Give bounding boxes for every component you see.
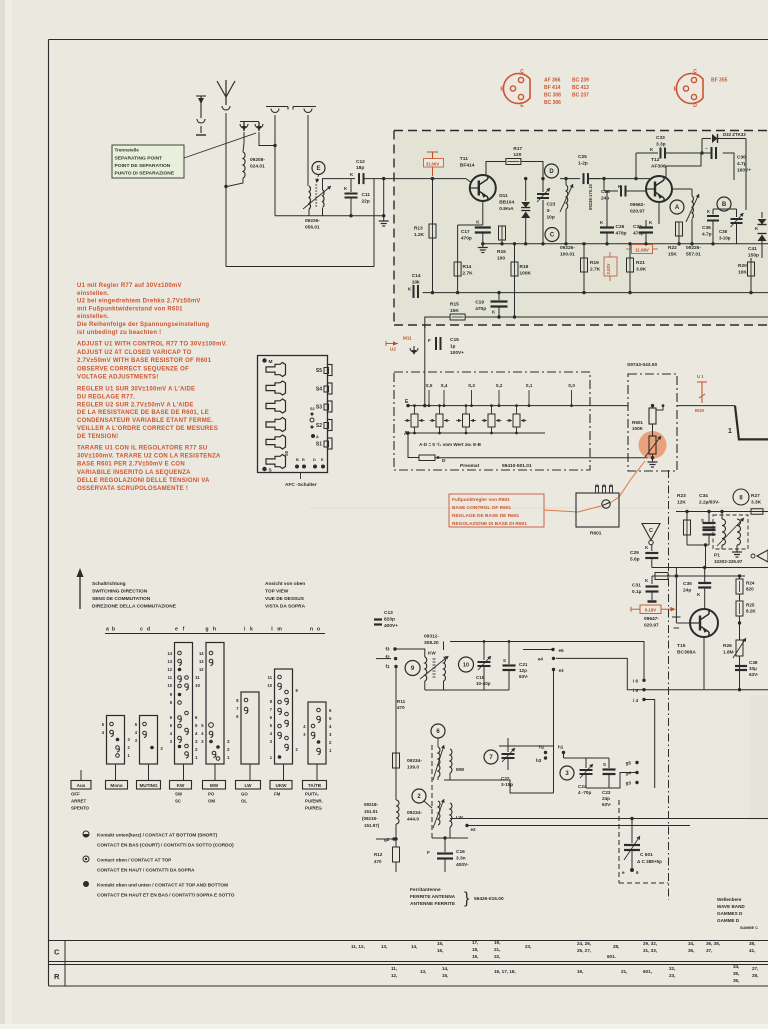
svg-text:R20: R20 [738,263,747,269]
svg-text:c: c [140,627,143,633]
AFC M contact [262,358,266,362]
svg-text:U2 bei eingedrehtem Drehko 2.7: U2 bei eingedrehtem Drehko 2.7V±50mV [77,299,201,305]
svg-text:A: A [316,435,319,439]
svg-text:h1: h1 [558,745,564,750]
svg-text:i 4: i 4 [633,698,639,703]
svg-text:S5: S5 [316,368,322,374]
svg-text:13,: 13, [381,944,387,949]
svg-text:AF 366: AF 366 [544,78,561,84]
svg-text:09226-: 09226- [305,218,320,224]
transistor T15 BC308A [690,609,718,637]
wire e5 bus to i6 [450,642,644,681]
svg-text:37,: 37, [706,948,712,953]
wire KW secondary top to bus [444,642,451,658]
R601 tap wire [657,406,664,410]
svg-text:einstellen.: einstellen. [77,291,109,297]
C601 enclosure dashed [618,800,620,883]
svg-text:R22: R22 [668,245,677,251]
svg-text:GAMME D: GAMME D [717,918,740,923]
svg-text:S,3: S,3 [468,383,475,388]
svg-text:U2: U2 [390,347,396,352]
svg-text:C17: C17 [461,229,470,235]
svg-text:h: h [213,627,216,633]
svg-text:444.0: 444.0 [407,817,419,823]
svg-text:35,: 35, [733,971,739,976]
lower bus 292 [423,292,768,294]
svg-text:11: 11 [195,675,200,680]
circled 2 [412,789,426,803]
svg-text:VEILLER A L'ORDRE CORRECT DE M: VEILLER A L'ORDRE CORRECT DE MESURES [77,426,218,432]
svg-text:C22: C22 [501,776,510,781]
lower long bus 818 [450,818,768,820]
AFC-Schalter box [258,356,328,473]
svg-text:C36: C36 [702,225,711,231]
svg-text:T12: T12 [651,157,660,163]
svg-text:UKW: UKW [276,783,288,788]
stem for Aus [80,770,82,781]
svg-text:10k: 10k [412,280,420,286]
vertical dash-dot separator [668,470,670,900]
svg-text:400V-: 400V- [456,862,469,868]
shaded RF block background [394,131,768,326]
wire f1 down to antenna coil [395,667,397,801]
circled 9 [405,661,420,676]
svg-text:Die Reihenfolge der Spannungse: Die Reihenfolge der Spannungseinstellung [77,322,209,328]
svg-text:D: D [442,458,446,464]
svg-text:12K: 12K [677,500,686,506]
svg-text:2.7V±50mV WITH BASE RESISTOR O: 2.7V±50mV WITH BASE RESISTOR OF R601 [77,358,212,364]
trimmer capacitor C38 3-10p [736,209,738,217]
svg-text:B: B [722,202,727,208]
thick wire 1 [677,405,735,407]
svg-text:R11: R11 [397,699,406,704]
svg-text:2.02V: 2.02V [606,263,611,274]
svg-text:M10: M10 [695,408,704,413]
svg-text:400V+: 400V+ [384,623,398,629]
svg-text:820: 820 [746,587,754,592]
svg-text:MW: MW [456,767,465,772]
svg-text:C30: C30 [737,155,746,161]
svg-text:3-10p: 3-10p [719,236,731,241]
KW transformer [425,657,427,681]
svg-text:14: 14 [167,651,172,656]
svg-text:24p: 24p [602,796,610,801]
svg-text:VOLTAGE ADJUSTMENTS!: VOLTAGE ADJUSTMENTS! [77,375,159,381]
svg-text:C13: C13 [384,610,393,616]
svg-text:C19: C19 [475,300,484,306]
svg-text:10K: 10K [738,270,747,276]
svg-text:ADJUST U1 WITH CONTROL R77 TO: ADJUST U1 WITH CONTROL R77 TO 30V±100mV. [77,342,227,348]
resistor R21 3.9K [629,244,631,258]
svg-text:e2: e2 [471,827,477,832]
svg-text:ist unbedingt zu beachten !: ist unbedingt zu beachten ! [77,330,161,336]
svg-text:SW: SW [175,792,183,797]
svg-text:34,: 34, [733,964,739,969]
svg-text:R25: R25 [746,603,755,608]
circled letter B [717,197,731,211]
svg-text:m: m [277,627,282,633]
svg-text:REGLER U1 SUR 30V±100mV A L'AI: REGLER U1 SUR 30V±100mV A L'AIDE [77,387,195,393]
svg-text:e3: e3 [559,668,565,673]
capacitor C23b 24p 63V [608,758,610,768]
svg-text:f1: f1 [386,664,391,669]
svg-text:3.3p: 3.3p [656,142,666,148]
svg-text:29, 32,: 29, 32, [643,941,657,946]
svg-text:R23: R23 [677,493,686,499]
svg-text:09234-: 09234- [407,758,422,764]
svg-text:10-40p: 10-40p [476,681,491,686]
svg-text:S0: S0 [284,450,289,456]
svg-text:C31: C31 [632,583,641,589]
svg-text:Contact oben / CONTACT AT TOP: Contact oben / CONTACT AT TOP [97,858,171,863]
transistor T11 BF414 [470,175,496,201]
svg-text:470: 470 [374,859,382,864]
svg-text:15K: 15K [450,308,459,314]
svg-text:19,: 19, [577,969,583,974]
svg-text:36, 38,: 36, 38, [706,941,720,946]
separating plug below block [410,348,418,352]
top bus inside block [485,162,487,177]
R601 screw [602,500,610,508]
svg-text:M11: M11 [403,336,412,341]
svg-text:KW: KW [177,783,185,788]
svg-text:470p: 470p [475,306,486,312]
transistor pinout case 1 [503,74,530,104]
svg-text:11,: 11, [391,966,397,971]
orange wire to R601 control [544,506,601,512]
svg-text:S2: S2 [316,423,322,429]
svg-text:3-15p: 3-15p [501,782,513,787]
switching direction arrow [79,572,81,609]
svg-text:09234-: 09234- [407,810,422,816]
svg-text:C12: C12 [356,159,365,165]
svg-text:09238-170.10: 09238-170.10 [588,183,593,210]
svg-text:11.06V: 11.06V [635,248,649,253]
potentiometer R601 [649,436,656,454]
red label 0.18V [631,608,640,610]
svg-text:160V+: 160V+ [737,168,751,174]
svg-text:S,1: S,1 [526,383,533,388]
svg-text:S3: S3 [316,405,322,411]
wire f3 to KW transformer [395,649,425,657]
svg-text:R12: R12 [374,852,383,857]
svg-text:R: R [302,458,305,462]
svg-text:DU REGLAGE R77.: DU REGLAGE R77. [77,394,135,400]
svg-text:SEPARATING POINT: SEPARATING POINT [115,156,163,162]
main RF line [394,178,466,180]
oscillator rail 567 [652,567,768,569]
svg-text:BF 414: BF 414 [544,85,561,91]
AFC S contact [262,467,266,471]
svg-text:OBSERVE CORRECT SEQUENZE OF: OBSERVE CORRECT SEQUENZE OF [77,366,189,372]
svg-text:09312-: 09312- [424,634,439,640]
svg-text:C25: C25 [578,154,587,160]
svg-text:22,: 22, [494,954,500,959]
oscillator coil 09238-170.10 [565,179,567,185]
emitter bus [483,243,560,245]
svg-text:151.97): 151.97) [364,823,380,828]
svg-text:GO: GO [241,792,248,797]
svg-text:19,: 19, [472,954,478,959]
svg-text:BC 239: BC 239 [572,78,589,84]
svg-text:o: o [317,627,320,633]
svg-text:020.97: 020.97 [630,209,645,215]
capacitor C21 12p 63V [508,642,510,665]
AFC switch arrow shapes [266,363,286,377]
wire C36 C38 top link [713,208,737,210]
svg-text:17,: 17, [472,940,478,945]
wire left plug to coil [243,132,244,152]
svg-text:n: n [310,627,313,633]
svg-text:C15: C15 [450,337,459,343]
svg-text:14,: 14, [442,966,448,971]
svg-text:T15: T15 [677,643,686,649]
wire i4 down [644,700,655,789]
svg-text:Ferritantenne: Ferritantenne [410,887,441,893]
svg-text:C38: C38 [749,660,758,665]
svg-text:R18: R18 [520,264,529,270]
svg-text:B: B [500,87,504,93]
svg-text:Preomat: Preomat [460,463,480,469]
svg-text:S,5: S,5 [426,383,433,388]
svg-text:FERRITE ANTENNA: FERRITE ANTENNA [410,894,456,900]
Preomat top rail [408,405,628,407]
circled letter A [670,200,684,214]
trimmer C22 [507,738,509,752]
oscillator rail 576 [652,575,745,577]
svg-text:b: b [112,627,115,633]
circled letter C [545,228,559,242]
svg-text:S: S [503,658,506,663]
svg-text:PU/REG: PU/REG [305,806,322,811]
svg-text:D: D [693,103,697,109]
svg-text:23,: 23, [669,973,675,978]
wafer box 3 [175,643,193,765]
AFC leader line [300,473,302,480]
svg-text:A: A [675,205,680,211]
resistor R24 820 [739,576,741,579]
svg-text:CONTACT EN HAUT / CONTATTI DA: CONTACT EN HAUT / CONTATTI DA SOPRA [97,868,195,873]
circled letter D [545,164,559,178]
svg-text:41,: 41, [749,948,755,953]
svg-text:ADJUST U2 AT CLOSED VARICAP TO: ADJUST U2 AT CLOSED VARICAP TO [77,350,192,356]
resistor R14 2.7K [457,225,459,262]
svg-text:F: F [428,338,431,343]
svg-text:h2: h2 [539,745,545,750]
svg-text:S,0: S,0 [568,383,575,388]
oscillator top rail 511 [676,511,768,513]
resistor R25 8.2K [739,594,741,601]
svg-text:R24: R24 [746,581,755,586]
svg-text:31, 33,: 31, 33, [643,948,657,953]
svg-text:TOP VIEW: TOP VIEW [265,589,289,595]
svg-text:151.01: 151.01 [364,809,378,814]
transformer 09226-056.01 circle E [312,162,325,175]
svg-text:100K: 100K [632,426,644,431]
svg-text:601.: 601. [607,954,616,959]
svg-text:09208-: 09208- [250,157,265,163]
svg-text:09226-: 09226- [686,245,701,251]
svg-text:24, 26,: 24, 26, [577,941,591,946]
svg-text:024.01: 024.01 [250,164,265,170]
svg-text:U 1: U 1 [697,374,704,379]
FM dipole antenna symbol [217,81,226,97]
svg-text:63V-: 63V- [749,672,759,677]
variable coil right of T12 [672,188,692,190]
variable capacitor C601 [631,819,633,844]
T12 emitter wire [658,202,660,224]
svg-text:R601: R601 [632,420,643,425]
svg-text:KW: KW [428,651,436,656]
svg-text:U1 mit Regler R77 auf 30V±100m: U1 mit Regler R77 auf 30V±100mV [77,283,182,289]
trimmer C24 [585,758,587,768]
svg-text:27,: 27, [752,966,758,971]
svg-text:3.3n: 3.3n [456,856,466,862]
svg-text:0.1µ: 0.1µ [632,589,642,595]
svg-text:3.9K: 3.9K [636,267,647,273]
contacts e5 e4 e3 [551,648,554,651]
svg-text:4.7p: 4.7p [702,232,712,238]
svg-text:09647-: 09647- [644,616,659,622]
dipole bottom wire [275,215,384,217]
svg-text:10202-326.97: 10202-326.97 [714,559,743,564]
svg-text:C16: C16 [456,849,465,855]
wire e4 to i5 [556,658,768,689]
resistor R20 10K [748,262,755,276]
triangle amplifier C [642,524,660,541]
svg-text:a: a [106,627,109,633]
svg-text:150p: 150p [748,253,759,259]
svg-text:10p: 10p [547,215,555,221]
svg-text:139.0: 139.0 [407,765,419,771]
R601 control box [576,493,619,527]
svg-text:SUMME C: SUMME C [740,926,758,930]
svg-text:36,: 36, [733,978,739,983]
svg-text:R21: R21 [636,260,645,266]
svg-text:63V-: 63V- [602,802,612,807]
svg-text:100V+: 100V+ [450,350,464,356]
svg-text:ANTENNE FERRITE: ANTENNE FERRITE [410,901,456,907]
svg-text:21,: 21, [494,947,500,952]
Preomat A rail [408,432,545,434]
svg-text:TA/TB: TA/TB [308,783,322,788]
svg-text:S,2: S,2 [496,383,503,388]
svg-text:C28: C28 [601,189,610,195]
svg-text:557.01: 557.01 [686,252,701,258]
wire plug to dipole junction [259,132,275,146]
svg-text:i 6: i 6 [633,679,639,684]
RF block dashed border [394,130,768,132]
wire h bus [499,745,554,747]
trimmer C18 [483,642,485,661]
svg-text:10µ: 10µ [749,666,757,671]
dipole left leg [271,109,279,113]
svg-text:T11: T11 [460,156,468,162]
svg-text:R15: R15 [450,302,459,308]
svg-text:einstellen.: einstellen. [77,314,109,320]
svg-text:R16: R16 [497,249,506,255]
red symbol M10 [697,381,707,383]
svg-text:308.20: 308.20 [424,640,439,646]
svg-text:11: 11 [168,675,173,680]
label leader line [184,133,256,158]
svg-text:C24: C24 [578,784,587,789]
svg-text:BB104: BB104 [499,200,514,206]
svg-text:PU/TA.: PU/TA. [305,792,319,797]
svg-text:SWITCHING DIRECTION: SWITCHING DIRECTION [92,589,148,595]
MW bottom bus [444,780,554,793]
svg-text:470p: 470p [616,231,627,237]
svg-text:OM: OM [208,799,215,804]
wire e2 up [466,819,468,826]
svg-text:D32 ZTK33: D32 ZTK33 [723,132,746,137]
svg-text:AF306: AF306 [651,164,666,170]
svg-text:10: 10 [267,683,272,688]
svg-text:470: 470 [397,705,405,710]
svg-text:BF414: BF414 [460,163,475,169]
svg-text:10: 10 [463,662,469,668]
svg-text:D11: D11 [499,193,508,199]
wire T12 collector to C30 junction [666,153,701,177]
T15 emitter wire down [703,637,705,690]
svg-text:VISTA DA SOPRA: VISTA DA SOPRA [265,604,306,610]
svg-text:BC308A: BC308A [677,650,696,656]
svg-text:R27: R27 [751,493,760,499]
svg-text:18,: 18, [472,947,478,952]
svg-text:24p: 24p [601,196,609,202]
svg-text:OFF: OFF [71,792,80,797]
svg-text:38,: 38, [749,941,755,946]
svg-text:25, 27,: 25, 27, [577,948,591,953]
svg-text:SPENTO: SPENTO [71,806,90,811]
svg-text:OL: OL [241,799,247,804]
circled 10 [459,657,474,672]
svg-text:8.2K: 8.2K [746,609,756,614]
right edge diode [757,550,768,562]
trimmer capacitor C23 3-10p [542,179,544,192]
svg-text:1-2p: 1-2p [578,161,588,167]
small resistor in rail 576 [655,573,668,580]
red label 11.06V [626,248,631,250]
svg-text:R: R [54,972,60,981]
antenna bottom wire [226,179,374,267]
svg-text:22,: 22, [669,966,675,971]
transistor T12 AF306 [646,176,672,202]
svg-text:Aus: Aus [77,783,86,788]
svg-text:2.7K: 2.7K [590,267,601,273]
svg-text:BC 306: BC 306 [544,100,561,106]
svg-text:R26: R26 [723,643,732,649]
svg-text:1.2K: 1.2K [414,232,425,238]
svg-text:S1: S1 [316,442,322,448]
svg-text:12p: 12p [519,668,527,673]
svg-text:14,: 14, [411,944,417,949]
svg-text:Kontakt unten(kurz) / CONTACT: Kontakt unten(kurz) / CONTACT AT BOTTOM … [97,833,218,838]
svg-text:15,: 15, [437,941,443,946]
svg-text:~: ~ [705,146,708,151]
legend contact top and bottom [83,881,89,887]
svg-text:S9743-043.00: S9743-043.00 [627,362,657,368]
svg-text:6: 6 [636,870,639,875]
resistor R16 100 [499,226,506,240]
svg-text:4.7p: 4.7p [737,161,747,167]
svg-text:020.97: 020.97 [644,623,659,629]
wire coil to mast [227,178,243,187]
svg-text:19,: 19, [494,940,500,945]
svg-text:Wellenbere: Wellenbere [717,897,742,902]
svg-text:Mono: Mono [110,783,122,788]
orange highlight circle [639,431,667,459]
